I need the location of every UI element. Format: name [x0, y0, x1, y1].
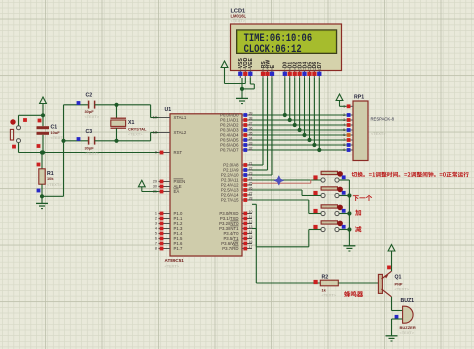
svg-text:<TEXT>: <TEXT>	[128, 132, 143, 137]
label inc (red)	[355, 210, 361, 216]
ground LCD VSS	[236, 78, 248, 104]
wire P0.7 to RP1	[252, 149, 346, 151]
cursor cross (blue)	[274, 176, 284, 186]
wire LCD D5 to P0.5	[307, 78, 311, 142]
svg-text:EA: EA	[174, 189, 180, 194]
pin P0.0/AD0 (39) U1 right	[220, 111, 252, 117]
svg-text:10k: 10k	[47, 176, 54, 181]
svg-text:3: 3	[155, 222, 157, 226]
svg-text:9: 9	[155, 151, 157, 155]
svg-text:<TEXT>: <TEXT>	[400, 330, 415, 335]
svg-text:39: 39	[249, 111, 253, 115]
pin P2.7/A15 (28) U1 right	[221, 196, 253, 202]
svg-text:18: 18	[153, 131, 157, 135]
svg-text:10: 10	[249, 210, 253, 214]
pin 9 RP1	[343, 148, 353, 152]
pin P3.3/INT1 (13) U1 right	[219, 225, 252, 231]
svg-text:2: 2	[155, 217, 157, 221]
svg-text:8: 8	[343, 143, 345, 147]
wire LCD D6 to P0.6	[312, 78, 316, 147]
pin P0.5/AD5 (34) U1 right	[220, 136, 252, 142]
pin P2.5/A13 (26) U1 right	[221, 186, 253, 192]
power flag RP1	[336, 94, 346, 106]
pin P2.2/A10 (23) U1 right	[221, 171, 253, 177]
svg-text:30: 30	[153, 185, 157, 189]
pin 7 RP1	[343, 138, 353, 142]
svg-text:PNP: PNP	[395, 281, 403, 286]
pin 3 RP1	[343, 118, 353, 122]
wire P0.2 to RP1	[252, 124, 346, 126]
svg-text:19: 19	[153, 116, 157, 120]
svg-text:CLOCK:06:12: CLOCK:06:12	[244, 44, 302, 56]
pin ALE (30) U1 left	[153, 184, 182, 189]
svg-text:<TEXT>: <TEXT>	[395, 287, 410, 292]
pin 4 RP1	[343, 123, 353, 127]
svg-text:5: 5	[343, 128, 345, 132]
pin D0 (7) LCD1	[283, 62, 289, 78]
wire P2.3 to key1	[252, 179, 321, 181]
push-button key2 (next)	[313, 187, 349, 198]
svg-text:RP1: RP1	[354, 95, 364, 101]
wire key ground bus	[347, 180, 351, 246]
pin P1.6 (7) U1 left	[155, 241, 183, 246]
pin D1 (8) LCD1	[288, 62, 294, 78]
wire RST net	[19, 150, 159, 154]
pin XTAL2 (18) U1 left	[153, 130, 187, 135]
LCD1 LM016L body	[231, 24, 342, 71]
pin D7 (14) LCD1	[317, 62, 323, 78]
svg-text:23: 23	[249, 171, 253, 175]
svg-text:2: 2	[343, 113, 345, 117]
svg-text:3: 3	[343, 118, 345, 122]
svg-text:9: 9	[343, 148, 345, 152]
wire P0.0 to RP1	[252, 114, 346, 116]
ground buzzer	[386, 336, 398, 341]
svg-text:<TEXT>: <TEXT>	[47, 182, 62, 187]
pin P3.0/RXD (10) U1 right	[219, 210, 252, 216]
svg-text:36: 36	[249, 126, 253, 130]
resistor R1 10k	[37, 150, 63, 196]
power flag EA high	[138, 180, 158, 191]
pin P0.1/AD1 (38) U1 right	[220, 116, 252, 122]
svg-text:AT89C51: AT89C51	[165, 258, 185, 263]
svg-text:13: 13	[249, 225, 253, 229]
wire P2.7 to key3	[252, 200, 321, 214]
wire LCD D0 to P0.0	[283, 78, 287, 117]
pin RS (4) LCD1	[261, 61, 267, 78]
label buzzer (red)	[344, 291, 363, 297]
svg-text:<TEXT>: <TEXT>	[231, 18, 246, 23]
pin P1.7 (8) U1 left	[155, 246, 183, 251]
resistor R2 1k	[314, 274, 379, 297]
pin P1.5 (6) U1 left	[155, 236, 183, 241]
pin D4 (11) LCD1	[302, 62, 308, 78]
pin 5 RP1	[343, 128, 353, 132]
push-button key4 (dec)	[313, 221, 349, 232]
svg-text:16: 16	[249, 240, 253, 244]
svg-text:<TEXT>: <TEXT>	[85, 151, 100, 156]
push-button key1 (mode)	[313, 171, 349, 182]
svg-text:25: 25	[249, 181, 253, 185]
crystal X1	[111, 103, 148, 143]
pin RW (5) LCD1	[265, 60, 271, 78]
wire P0.4 to RP1	[252, 134, 346, 136]
label key functions (red)	[352, 172, 469, 177]
svg-text:1: 1	[343, 105, 345, 109]
LCD1 labels	[231, 9, 247, 23]
svg-text:5: 5	[155, 232, 157, 236]
svg-text:4: 4	[343, 123, 345, 127]
svg-text:X1: X1	[128, 120, 134, 126]
pin D6 (13) LCD1	[312, 62, 318, 78]
pin D5 (12) LCD1	[307, 62, 313, 78]
wire P0.3 to RP1	[252, 129, 346, 131]
svg-text:XTAL2: XTAL2	[174, 130, 187, 135]
pin P2.4/A12 (25) U1 right	[221, 181, 253, 187]
svg-text:RST: RST	[174, 150, 183, 155]
pin P3.1/TXD (11) U1 right	[220, 215, 252, 221]
LCD text line2 CLOCK	[244, 44, 302, 56]
pin P0.4/AD4 (35) U1 right	[220, 131, 252, 137]
svg-text:<TEXT>: <TEXT>	[322, 293, 337, 298]
svg-text:BUZ1: BUZ1	[401, 298, 415, 304]
svg-text:22: 22	[249, 166, 253, 170]
svg-text:11: 11	[249, 215, 253, 219]
svg-text:P3.7/RD: P3.7/RD	[222, 246, 238, 251]
LCD text line1 TIME	[244, 33, 313, 45]
wire XTAL1	[151, 105, 159, 118]
svg-text:P1.7: P1.7	[174, 246, 183, 251]
pin VDD (2) LCD1	[243, 57, 249, 78]
ground keys	[343, 246, 355, 251]
wire P0.5 to RP1	[252, 139, 346, 141]
wire LCD control to P2	[252, 78, 268, 170]
svg-text:32: 32	[249, 146, 253, 150]
pin P3.6/WR (16) U1 right	[221, 240, 252, 246]
pin 8 RP1	[343, 143, 353, 147]
svg-text:37: 37	[249, 121, 253, 125]
transistor Q1 PNP	[378, 271, 409, 297]
pin P3.4/T0 (14) U1 right	[223, 230, 252, 236]
capacitor C3 30pF	[61, 129, 150, 156]
svg-text:4: 4	[155, 227, 157, 231]
power flag VCC (reset circuit)	[40, 97, 47, 115]
pin 2 RP1	[343, 113, 353, 117]
svg-text:P2.7/A15: P2.7/A15	[221, 198, 239, 203]
svg-text:6: 6	[343, 133, 345, 137]
microcontroller U1 AT89C51	[165, 107, 243, 269]
wire buzzer to ground	[392, 319, 403, 336]
wire P2.5 to key2	[252, 190, 321, 196]
svg-text:<TEXT>: <TEXT>	[85, 114, 100, 119]
svg-text:7: 7	[343, 138, 345, 142]
pin P0.2/AD2 (37) U1 right	[220, 121, 252, 127]
label next (red)	[353, 195, 372, 201]
pin P1.2 (3) U1 left	[155, 221, 183, 226]
pin 1 RP1	[343, 104, 353, 108]
wire caps-to-ground net	[42, 105, 64, 197]
svg-text:12: 12	[249, 220, 253, 224]
pin D3 (10) LCD1	[297, 62, 303, 78]
svg-text:Q1: Q1	[395, 274, 402, 280]
svg-text:17: 17	[249, 245, 253, 249]
svg-text:U1: U1	[165, 107, 172, 113]
label dec (red)	[355, 226, 361, 232]
wire LCD D7 to P0.7	[317, 78, 321, 152]
pin P1.3 (4) U1 left	[155, 226, 183, 231]
pin P0.6/AD6 (33) U1 right	[220, 141, 252, 147]
wire LCD control to P2	[252, 78, 263, 165]
svg-text:15: 15	[249, 235, 253, 239]
resistor pack RP1 RESPACK-8	[353, 95, 395, 161]
svg-text:<TEXT>: <TEXT>	[165, 264, 180, 269]
svg-text:C3: C3	[86, 129, 93, 135]
pin 6 RP1	[343, 133, 353, 137]
svg-text:29: 29	[153, 180, 157, 184]
wire red highlight	[252, 180, 311, 184]
pin RST (9) U1 left	[155, 150, 183, 155]
wire P3.3 to R2	[252, 229, 320, 284]
pin VSS (1) LCD1	[238, 58, 244, 78]
pin PSEN (29) U1 left	[153, 179, 185, 184]
power flag Q1 emitter	[387, 245, 395, 272]
ground (reset divider)	[36, 194, 48, 208]
svg-text:24: 24	[249, 176, 253, 180]
svg-text:7: 7	[155, 242, 157, 246]
push-button (reset)	[10, 115, 27, 152]
pin P2.1/A9 (22) U1 right	[223, 166, 252, 172]
svg-text:R2: R2	[322, 274, 329, 280]
pin P1.1 (2) U1 left	[155, 216, 183, 221]
svg-text:1: 1	[155, 212, 157, 216]
svg-text:33: 33	[249, 141, 253, 145]
capacitor C2 30pF	[64, 93, 151, 120]
wire LCD D2 to P0.2	[293, 78, 297, 127]
svg-text:<TEXT>: <TEXT>	[371, 131, 386, 136]
pin P3.5/T1 (15) U1 right	[223, 235, 252, 241]
pin P2.6/A14 (27) U1 right	[221, 191, 253, 197]
wire collector to buzzer	[392, 297, 403, 311]
wire LCD D1 to P0.1	[288, 78, 292, 122]
wire LCD control to P2	[252, 78, 272, 175]
pin P1.4 (5) U1 left	[155, 231, 183, 236]
pin P0.3/AD3 (36) U1 right	[220, 126, 252, 132]
svg-text:XTAL1: XTAL1	[174, 115, 187, 120]
svg-text:34: 34	[249, 136, 253, 140]
pin P2.3/A11 (24) U1 right	[221, 176, 252, 182]
capacitor C1 10uF (electrolytic)	[37, 115, 66, 152]
wire P0.1 to RP1	[252, 119, 346, 121]
svg-text:26: 26	[249, 186, 253, 190]
pin VEE (3) LCD1	[248, 58, 254, 78]
pin E (6) LCD1	[270, 64, 276, 78]
svg-text:RESPACK-8: RESPACK-8	[371, 117, 395, 122]
svg-text:38: 38	[249, 116, 253, 120]
pin P0.7/AD7 (32) U1 right	[220, 146, 252, 152]
wire to key4	[252, 204, 321, 247]
pin EA (31) U1 left	[153, 189, 180, 194]
pin P1.0 (1) U1 left	[155, 211, 183, 216]
svg-text:21: 21	[249, 161, 253, 165]
wire VEE to ground detour	[242, 78, 254, 89]
buzzer BUZ1	[395, 298, 416, 335]
wire LCD D4 to P0.4	[302, 78, 306, 137]
svg-text:6: 6	[155, 237, 157, 241]
svg-text:35: 35	[249, 131, 253, 135]
wire XTAL2	[151, 133, 159, 141]
wire P0.6 to RP1	[252, 144, 346, 146]
svg-text:8: 8	[155, 247, 157, 251]
pin P3.2/INT0 (12) U1 right	[219, 220, 252, 226]
svg-text:14: 14	[249, 230, 253, 234]
svg-text:P0.7/AD7: P0.7/AD7	[220, 148, 239, 153]
svg-text:C2: C2	[86, 93, 93, 99]
pin P2.0/A8 (21) U1 right	[223, 161, 252, 167]
wire node reset-top	[19, 113, 46, 117]
push-button key3 (inc)	[313, 205, 349, 216]
wire LCD D3 to P0.3	[298, 78, 302, 132]
power flag LCD VDD	[221, 61, 245, 84]
pin XTAL1 (19) U1 left	[153, 115, 187, 120]
svg-text:28: 28	[249, 196, 253, 200]
pin D2 (9) LCD1	[293, 62, 299, 78]
svg-text:27: 27	[249, 191, 253, 195]
pin P3.7/RD (17) U1 right	[222, 245, 252, 251]
